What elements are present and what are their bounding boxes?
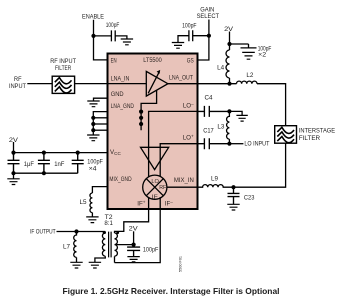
inductor L5 xyxy=(90,193,92,217)
op-amp U1A LNA triangle xyxy=(146,71,168,96)
node junction dot GAIN SELECT xyxy=(207,34,211,38)
svg-text:1nF: 1nF xyxy=(54,161,64,168)
mixer U1C circle xyxy=(143,175,167,199)
wire 2V supply rail to VCC xyxy=(14,142,108,153)
node junction dot IF OUTPUT xyxy=(74,229,78,233)
interstage filter box FL2 xyxy=(275,126,297,144)
ground decoupling rail xyxy=(7,179,19,185)
svg-text:GS: GS xyxy=(187,57,194,64)
svg-text:MIX_IN: MIX_IN xyxy=(174,177,194,184)
svg-text:100pF: 100pF xyxy=(106,22,120,29)
wire LO INPUT stub xyxy=(229,143,243,145)
ground L7 xyxy=(70,262,82,268)
ground LO top xyxy=(236,115,247,121)
wire C4 node to ground xyxy=(229,111,242,115)
wire T2 center tap xyxy=(115,244,134,246)
node junction dot ground rail 2 xyxy=(42,171,46,175)
node junction dot VCC rail 1 xyxy=(11,151,15,155)
ground 100pF IF bias xyxy=(127,257,139,262)
wire filter to LNA_IN xyxy=(75,83,108,85)
node junction dot VCC rail 3 xyxy=(76,151,80,155)
wire LNA output to LNA_OUT pin xyxy=(168,83,198,85)
inductor L9 xyxy=(198,185,234,188)
wire LNA ground feedback to LNA_GND rail xyxy=(141,90,157,130)
svg-text:LNA_GND: LNA_GND xyxy=(111,103,135,110)
ground LNA_GND xyxy=(87,135,99,141)
capacitor C23 xyxy=(228,187,240,204)
svg-text:LO INPUT: LO INPUT xyxy=(244,140,269,147)
capacitor 100pF IF bias xyxy=(127,247,140,257)
ground GND pin xyxy=(87,101,99,107)
wire IF OUTPUT xyxy=(57,231,106,233)
svg-text:100pF: 100pF xyxy=(143,247,159,254)
wire LNA_GND 3 xyxy=(93,123,107,125)
svg-text:ENABLE: ENABLE xyxy=(82,13,104,20)
svg-text:INTERSTAGE: INTERSTAGE xyxy=(299,127,335,134)
node junction dot LNA_GND b xyxy=(91,122,95,126)
svg-text:L3: L3 xyxy=(217,124,225,131)
svg-text:C23: C23 xyxy=(244,195,255,202)
capacitor 100pF x2 xyxy=(230,44,257,48)
svg-text:2V: 2V xyxy=(224,26,234,33)
node junction dot ground rail 1 xyxy=(11,171,15,175)
svg-text:LT5500: LT5500 xyxy=(143,57,162,64)
capacitor 100pF x4 xyxy=(72,153,84,174)
ground T2 secondary xyxy=(89,262,101,268)
transformer T2 right winding xyxy=(115,233,118,263)
wire 2V to center tap xyxy=(133,231,135,244)
wire mixer output to MIX_IN pin xyxy=(167,186,198,188)
svg-text:5500 F01: 5500 F01 xyxy=(179,256,183,272)
wire IF+ from mixer to pin xyxy=(148,197,150,209)
wire GAIN SELECT vertical xyxy=(198,20,209,61)
svg-text:C4: C4 xyxy=(205,95,214,102)
svg-text:L5: L5 xyxy=(80,199,88,206)
mixer X cross xyxy=(146,179,163,196)
wire ENABLE vertical xyxy=(94,20,108,60)
transformer T2 left winding xyxy=(95,232,105,263)
ground GS bypass xyxy=(172,43,184,49)
capacitor C17 xyxy=(198,138,230,149)
wire MIX_GND pin to L5 xyxy=(92,187,107,193)
node junction dot ENABLE xyxy=(91,34,95,38)
wire LNA_GND 4 xyxy=(93,129,107,131)
svg-text:2V: 2V xyxy=(129,226,139,233)
node junction dot C4 L3 xyxy=(227,109,231,113)
inductor L7 xyxy=(74,232,77,263)
svg-text:L2: L2 xyxy=(246,72,254,79)
svg-text:IF OUTPUT: IF OUTPUT xyxy=(30,228,56,235)
svg-text:100pF: 100pF xyxy=(182,23,197,30)
node junction dot center tap xyxy=(132,243,136,247)
RF input filter box FL1 xyxy=(52,76,74,93)
wire IF- pin to transformer xyxy=(115,210,161,263)
filter FL2 wavy icon xyxy=(277,127,294,142)
node junction dot LNA_GND c xyxy=(91,128,95,132)
node junction dot LNA_GND a xyxy=(91,116,95,120)
svg-text:L4: L4 xyxy=(217,65,225,72)
svg-text:1μF: 1μF xyxy=(24,161,34,168)
ground L5 xyxy=(86,217,98,223)
wire interstage filter to MIX_IN line xyxy=(234,143,286,187)
wire LNA_IN pin to LNA input xyxy=(108,83,147,85)
ground 100pF x2 xyxy=(242,52,255,59)
svg-text:RF: RF xyxy=(159,185,167,191)
wire RF INPUT to filter xyxy=(27,83,52,85)
wire GND pin to ground xyxy=(94,98,108,101)
IC U1 LT5500 body xyxy=(108,54,198,210)
capacitor 1uF xyxy=(8,153,20,174)
svg-text:2V: 2V xyxy=(9,137,19,144)
wire LNA_OUT to interstage corner xyxy=(198,84,286,126)
filter FL1 wavy icon xyxy=(55,78,72,93)
node junction dot C23 xyxy=(231,185,235,189)
node junction dot LNA_GND 3 xyxy=(139,122,143,126)
svg-text:MIX_GND: MIX_GND xyxy=(109,176,132,183)
transformer T2 core xyxy=(109,232,112,258)
svg-text:L7: L7 xyxy=(63,243,71,250)
svg-text:C17: C17 xyxy=(203,128,214,135)
node junction dot LNA_GND 2 xyxy=(139,116,143,120)
svg-text:×4: ×4 xyxy=(89,165,98,172)
capacitor 100pF EN bypass xyxy=(94,30,127,41)
wire decoupling ground rail xyxy=(14,173,78,179)
svg-text:×2: ×2 xyxy=(258,51,267,58)
capacitor 1nF xyxy=(38,153,50,174)
svg-text:LNA_OUT: LNA_OUT xyxy=(169,75,193,82)
node junction dot L4 bottom xyxy=(227,82,231,86)
node junction dot LNA_GND 1 xyxy=(139,110,143,114)
svg-text:FILTER: FILTER xyxy=(55,65,72,72)
inductor L3 xyxy=(227,111,230,143)
inductor L2 xyxy=(237,81,257,84)
IC pin labels xyxy=(109,57,194,207)
svg-text:GND: GND xyxy=(111,91,124,98)
svg-text:EN: EN xyxy=(111,57,117,64)
svg-text:L9: L9 xyxy=(211,176,219,183)
svg-text:SELECT: SELECT xyxy=(197,13,220,20)
node junction dot C17 L3 xyxy=(227,142,231,146)
wire IF- from mixer to pin xyxy=(159,197,161,209)
capacitor C4 xyxy=(198,106,230,117)
wire 2V to L4 xyxy=(229,32,231,51)
ground EN bypass xyxy=(121,39,133,45)
svg-text:FILTER: FILTER xyxy=(299,135,321,142)
svg-text:LNA_IN: LNA_IN xyxy=(111,76,130,83)
inductor L4 xyxy=(226,50,229,84)
svg-text:8:1: 8:1 xyxy=(104,220,113,227)
svg-text:Figure 1. 2.5GHz Receiver. Int: Figure 1. 2.5GHz Receiver. Interstage Fi… xyxy=(63,287,280,296)
T2 phase dot left xyxy=(103,231,106,234)
wire IF+ pin to transformer xyxy=(115,210,149,234)
op-amp U1B LO buffer triangle xyxy=(141,147,169,169)
svg-text:LO: LO xyxy=(151,179,159,185)
wire LO+ pin run inside IC xyxy=(160,144,197,177)
svg-text:INPUT: INPUT xyxy=(9,83,26,90)
wire LO- pin run inside IC xyxy=(149,111,198,176)
node junction dot 2V L4 xyxy=(227,42,231,46)
svg-text:RF: RF xyxy=(14,76,22,83)
node junction dot VCC rail 2 xyxy=(42,151,46,155)
wire LNA_GND 1 xyxy=(93,112,107,135)
capacitor 100pF GS bypass xyxy=(178,30,209,42)
wire LNA_GND 2 xyxy=(93,117,107,119)
ground C23 xyxy=(227,204,239,210)
svg-text:IF: IF xyxy=(152,194,159,200)
gain control arrow on LNA xyxy=(148,73,159,94)
T2 phase dot right xyxy=(116,231,119,234)
